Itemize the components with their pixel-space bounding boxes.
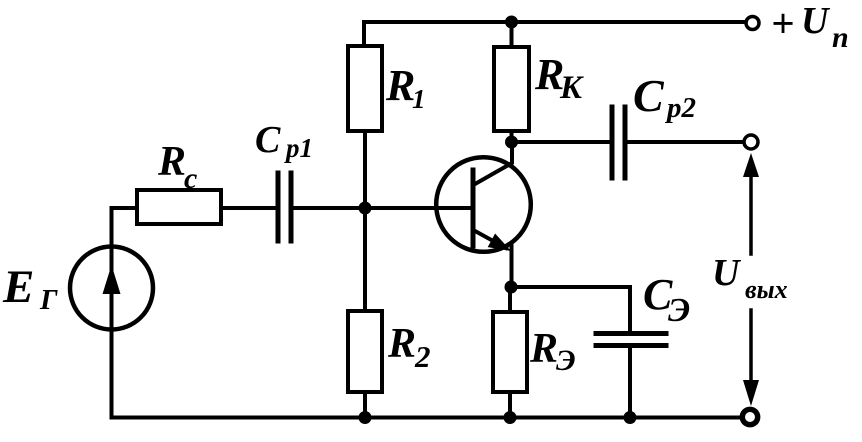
wire emitter node to CE branch [511, 287, 630, 331]
node emitter junction [505, 281, 518, 294]
label Rc [157, 139, 197, 195]
arrow Uvyh top (up) [743, 153, 759, 254]
wire Cp1 to base node [293, 206, 365, 210]
svg-text:2: 2 [414, 339, 431, 374]
wire Cp2 to output top terminal [627, 140, 744, 144]
svg-text:Э: Э [668, 292, 690, 329]
svg-text:C: C [633, 70, 665, 121]
resistor Rc [137, 190, 221, 224]
transistor base bar [471, 170, 476, 246]
arrow EG up [103, 265, 121, 294]
wire EG vertical through circle [110, 245, 114, 331]
resistor R1 [348, 46, 382, 131]
resistor RE [493, 312, 527, 392]
resistor RK [494, 47, 529, 131]
node base junction [359, 202, 372, 215]
wire RE bottom to rail [508, 392, 512, 418]
wire base node to R2 [363, 208, 367, 311]
wire EG bottom to rail [112, 331, 363, 418]
wire R1 bottom to base node [363, 131, 367, 208]
svg-text:C: C [255, 119, 281, 161]
svg-text:вых: вых [745, 275, 788, 304]
wire emitter node to RE [508, 287, 512, 312]
terminal +Un [746, 17, 759, 30]
label Uvyh [712, 252, 788, 304]
transistor VT circle [436, 157, 531, 252]
svg-text:p2: p2 [664, 92, 696, 124]
label CE [643, 270, 690, 329]
svg-text:E: E [2, 261, 34, 313]
node rail RE junction [504, 411, 517, 424]
label R2 [387, 321, 431, 374]
node rail CE junction [624, 411, 637, 424]
svg-text:U: U [712, 252, 742, 294]
wire RK bottom to collector node [510, 131, 514, 142]
capacitor Cp2 [612, 107, 625, 178]
svg-text:n: n [832, 21, 849, 54]
source EG circle [70, 247, 153, 330]
svg-text:Э: Э [556, 344, 576, 377]
capacitor Cp1 [278, 173, 291, 241]
label RE [529, 326, 576, 377]
label Cp2 [633, 70, 696, 124]
label +Un [771, 0, 849, 54]
svg-text:K: K [559, 70, 584, 106]
wire EG top to Rc [112, 208, 138, 245]
terminal output bottom [742, 409, 757, 424]
label EG [2, 261, 58, 316]
wire emitter to emitter node [510, 245, 514, 287]
transistor emitter arrowhead [488, 234, 511, 252]
transistor collector lead [475, 142, 512, 184]
resistor R2 [348, 311, 382, 392]
wire base node to transistor [365, 206, 471, 210]
svg-text:R: R [157, 139, 186, 185]
terminal output top [744, 135, 758, 149]
node rail R2 junction [359, 411, 372, 424]
wire CE bottom to rail [628, 346, 632, 418]
label RK [534, 50, 584, 106]
svg-text:R: R [387, 321, 416, 367]
wire Rc to Cp1 [221, 206, 275, 210]
svg-text:+: + [771, 0, 794, 46]
wire R2 bottom to rail [363, 392, 367, 418]
transistor emitter lead [475, 231, 506, 248]
svg-text:p1: p1 [284, 133, 313, 163]
wire collector node to Cp2 [512, 140, 611, 144]
wire RK top stub [510, 22, 514, 47]
wire top rail [364, 22, 746, 46]
svg-text:R: R [529, 326, 558, 372]
svg-text:R: R [385, 61, 415, 110]
svg-text:1: 1 [412, 84, 426, 114]
arrow Uvyh bottom (down) [743, 310, 759, 406]
svg-text:Г: Г [39, 284, 58, 316]
svg-text:U: U [801, 0, 831, 42]
node top-rail/RK junction [505, 16, 518, 29]
node collector junction [505, 136, 518, 149]
wire bottom rail [362, 416, 740, 420]
label R1 [385, 61, 426, 114]
label Cp1 [255, 119, 313, 163]
svg-text:c: c [184, 162, 197, 195]
capacitor CE [596, 334, 666, 346]
